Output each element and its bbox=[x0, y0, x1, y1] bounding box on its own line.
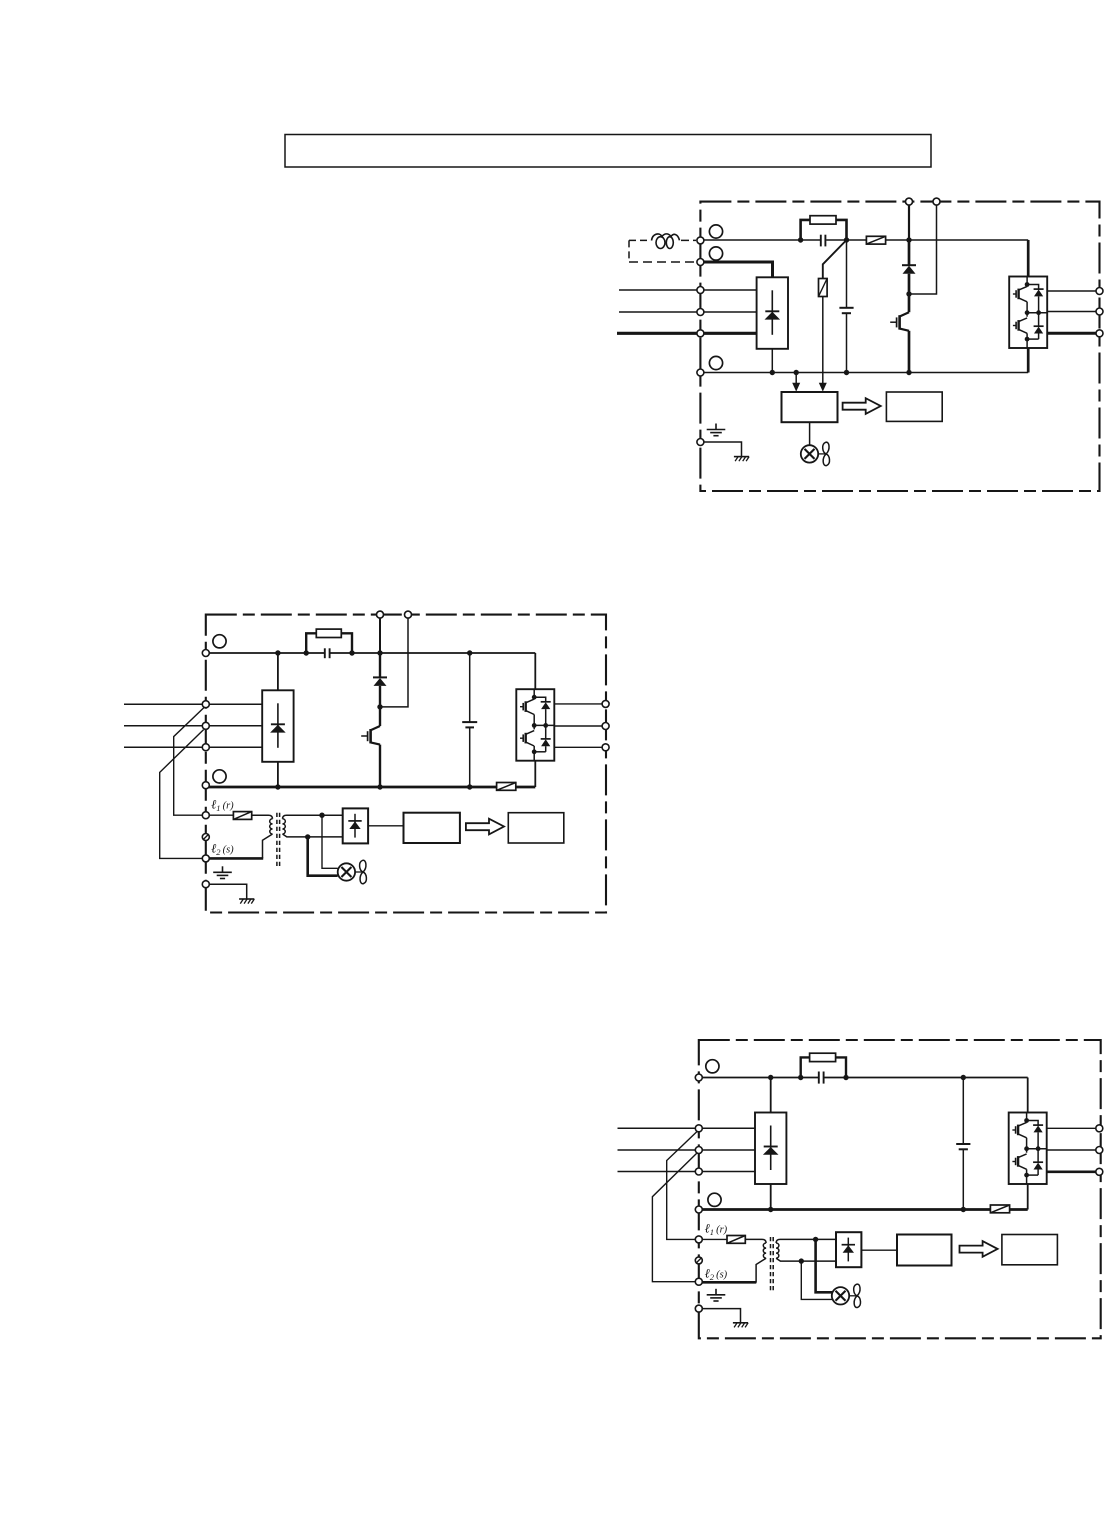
wire: inverter top lead (diagram 1) bbox=[1027, 240, 1030, 277]
wire: output V (diagram 3) bbox=[1047, 1149, 1097, 1151]
junction dots on N bus (diagram 3) bbox=[768, 1207, 773, 1212]
wire: output U (diagram 2) bbox=[554, 703, 602, 705]
DC bus capacitor (diagram 3) bbox=[956, 1078, 970, 1210]
wire: inverter bottom lead (diagram 3) bbox=[1027, 1184, 1029, 1210]
aux fuse (diagram 2) bbox=[233, 812, 251, 820]
wire: N bus bottom (diagram 2, heavy) bbox=[206, 786, 536, 789]
terminal S input (diagram 1) bbox=[697, 309, 704, 316]
cooling fan (diagram 3) bbox=[832, 1284, 861, 1307]
control PCB box (diagram 3) bbox=[897, 1235, 952, 1266]
terminal V output (diagram 3) bbox=[1096, 1147, 1103, 1154]
DC reactor option (dashed coil circuit) bbox=[629, 234, 696, 262]
screw hole circle top (diagram 2) bbox=[213, 635, 226, 648]
chassis earth (hatched) diagram 3 bbox=[733, 1323, 748, 1328]
keypad box (diagram 3) bbox=[1002, 1235, 1058, 1265]
charging resistor (diagram 3) body bbox=[810, 1053, 836, 1061]
keypad box (diagram 1) bbox=[886, 392, 942, 421]
wire: l2 terminal to transformer primary (heavy, diagram 3) bbox=[697, 1281, 756, 1284]
terminal S input (diagram 3) bbox=[695, 1147, 702, 1154]
wire: inverter top lead (diagram 3) bbox=[1027, 1078, 1029, 1113]
wire: aux DC output to control PCB (diagram 3) bbox=[861, 1249, 897, 1251]
braking diode (diagram 1) bbox=[902, 240, 916, 294]
junction: chopper mid node (diagram 2) bbox=[377, 704, 382, 709]
wire: input line S (diagram 3) bbox=[618, 1149, 756, 1151]
wire: detector lead down to control PCB with arrowhead bbox=[822, 297, 824, 384]
wire: output U (diagram 3) bbox=[1047, 1127, 1097, 1129]
terminal DB top border right (diagram 2) bbox=[405, 611, 412, 618]
keypad box (diagram 2) bbox=[508, 813, 564, 843]
wire: output V (diagram 2) bbox=[554, 725, 602, 727]
screw hole circle bottom (diagram 2) bbox=[213, 770, 226, 783]
wire: rectifier bottom lead bbox=[771, 349, 773, 373]
voltage detector branch: diagonal lead from P bus bbox=[823, 240, 847, 279]
terminal P bus (diagram 2) bbox=[202, 650, 209, 657]
junction dot: secondary top node (diagram 3) bbox=[813, 1237, 818, 1242]
svg-text:ℓ2 (s): ℓ2 (s) bbox=[211, 841, 234, 857]
wire: input line S (diagram 2) bbox=[124, 725, 262, 727]
wire: chopper mid node to top border terminal DB (diagram 2) bbox=[380, 618, 408, 707]
wire: output W (diagram 1, heavy) bbox=[1047, 332, 1096, 335]
terminal W output (diagram 2) bbox=[602, 744, 609, 751]
terminal W output (diagram 1) bbox=[1096, 330, 1103, 337]
rectifier block (diagram 2) bbox=[277, 653, 279, 690]
inverter block (diagram 1) bbox=[1009, 277, 1047, 349]
block arrow to keypad box (diagram 3) bbox=[960, 1241, 998, 1257]
wire: output V (diagram 1) bbox=[1047, 311, 1096, 313]
wire: output U (diagram 1) bbox=[1047, 290, 1096, 292]
wire: inverter top lead (diagram 2) bbox=[534, 653, 536, 689]
braking IGBT (diagram 2) bbox=[379, 707, 381, 726]
terminal T input (diagram 2) bbox=[202, 744, 209, 751]
terminal S input (diagram 2) bbox=[202, 722, 209, 729]
wire: inverter bottom lead (diagram 2) bbox=[534, 761, 536, 788]
wire: l1 terminal to aux fuse (diagram 3) bbox=[699, 1238, 727, 1240]
block arrow to keypad box (diagram 1) bbox=[843, 398, 881, 414]
screw hole circle top B (diagram 1) bbox=[709, 247, 722, 260]
braking IGBT (diagram 1) bbox=[908, 294, 911, 312]
chassis earth (hatched) diagram 1 bbox=[734, 457, 749, 462]
cooling fan (diagram 2) bbox=[338, 860, 367, 883]
wire: fan feed heavy (diagram 2) bbox=[308, 837, 338, 876]
aux rectifier diode box (diagram 2) bbox=[343, 808, 368, 843]
terminal W output (diagram 3) bbox=[1096, 1168, 1103, 1175]
control transformer (diagram 2) bbox=[252, 813, 343, 868]
terminal DB top border right (diagram 1) bbox=[933, 198, 940, 205]
wire: input line R (diagram 3) bbox=[618, 1127, 756, 1129]
terminal P bus (diagram 3) bbox=[695, 1074, 702, 1081]
terminal P1 (diagram 1) bbox=[697, 237, 704, 244]
terminal G ground (diagram 2) bbox=[202, 881, 209, 888]
terminal R input (diagram 1) bbox=[697, 287, 704, 294]
slashed terminal (diagram 2) bbox=[202, 834, 209, 841]
junction dots on P bus (diagram 1) bbox=[798, 237, 803, 242]
junction dot: secondary bottom node (diagram 2) bbox=[305, 834, 310, 839]
aux rectifier diode box (diagram 3) bbox=[836, 1232, 861, 1267]
wire: N bus bottom (diagram 1) bbox=[700, 372, 1028, 374]
series capacitor in P bus (diagram 1) bbox=[821, 235, 826, 247]
aux fuse (diagram 3) bbox=[727, 1236, 745, 1244]
terminal G ground (diagram 3) bbox=[695, 1305, 702, 1312]
terminal U output (diagram 3) bbox=[1096, 1125, 1103, 1132]
slashed terminal (diagram 3) bbox=[695, 1257, 702, 1264]
block arrow to keypad box (diagram 2) bbox=[466, 819, 504, 835]
terminal l2 (diagram 3) bbox=[695, 1278, 702, 1285]
svg-text:ℓ2 (s): ℓ2 (s) bbox=[705, 1267, 728, 1283]
wire: P bus top (diagram 3) bbox=[699, 1077, 1028, 1079]
wire: DC bus sense tap with arrowhead bbox=[795, 373, 797, 384]
DC bus capacitor (diagram 2) bbox=[462, 653, 477, 787]
fuse in N bus (diagram 3) bbox=[990, 1205, 1009, 1213]
terminal U output (diagram 2) bbox=[602, 700, 609, 707]
title box (empty heading rectangle) bbox=[285, 135, 931, 168]
diagram 1 enclosure border (dashed) bbox=[700, 202, 1099, 491]
wire: ground terminal to chassis earth bbox=[700, 442, 741, 457]
wire: top border terminal P/DB down to P bus (diagram 2) bbox=[379, 618, 381, 653]
earth symbol above ground terminal (diagram 2) bbox=[213, 866, 232, 878]
diagram 3 enclosure border (dashed) bbox=[699, 1040, 1101, 1338]
wire: input line R (diagram 2) bbox=[124, 703, 262, 705]
wire: top border terminal P/DB down to P bus (diagram 1) bbox=[908, 205, 910, 240]
svg-text:ℓ1 (r): ℓ1 (r) bbox=[705, 1222, 728, 1238]
terminal V output (diagram 2) bbox=[602, 723, 609, 730]
series capacitor in P bus (diagram 3) bbox=[819, 1072, 824, 1084]
wire: input line T (diagram 1, heavy) bbox=[617, 332, 757, 335]
junction dots on P bus (diagram 2) bbox=[275, 650, 280, 655]
wire: inverter bottom lead (diagram 1) bbox=[1027, 348, 1030, 373]
terminal l1 (diagram 2) bbox=[202, 812, 209, 819]
wire: input line R (diagram 1) bbox=[619, 289, 757, 291]
earth symbol above ground terminal (diagram 3) bbox=[707, 1289, 726, 1301]
rectifier block (diagram 1) bbox=[757, 277, 788, 349]
voltage detector fuse (vertical) bbox=[819, 279, 828, 297]
charging resistor (diagram 1) leads bbox=[801, 220, 847, 240]
wire: input line T (diagram 2) bbox=[124, 746, 262, 748]
wire: P bus top (diagram 2) bbox=[206, 652, 536, 654]
terminal U output (diagram 1) bbox=[1096, 288, 1103, 295]
diagram 2 enclosure border (dashed) bbox=[206, 615, 606, 913]
terminal l1 (diagram 3) bbox=[695, 1236, 702, 1243]
series capacitor in P bus (diagram 2) bbox=[325, 648, 330, 658]
svg-text:ℓ1 (r): ℓ1 (r) bbox=[211, 798, 234, 814]
wire: l2 terminal to transformer primary (heavy) bbox=[204, 857, 263, 860]
terminal T input (diagram 3) bbox=[695, 1168, 702, 1175]
inverter block (diagram 2) bbox=[516, 689, 554, 761]
wire: fan feed heavy (diagram 3) bbox=[816, 1239, 833, 1292]
wire: aux tap from R phase to l1 terminal (diagram 3) bbox=[667, 1131, 698, 1239]
junction dot: secondary top node (diagram 2) bbox=[319, 813, 324, 818]
terminal R input (diagram 2) bbox=[202, 701, 209, 708]
terminal R input (diagram 3) bbox=[695, 1125, 702, 1132]
wire: N bus bottom (diagram 3, heavy) bbox=[699, 1208, 1028, 1211]
junction dots on N bus (diagram 1) bbox=[770, 370, 775, 375]
braking diode (diagram 2) bbox=[373, 653, 387, 707]
terminal V output (diagram 1) bbox=[1096, 308, 1103, 315]
terminal l2 (diagram 2) bbox=[202, 855, 209, 862]
terminal N bus (diagram 2) bbox=[202, 782, 209, 789]
control transformer (diagram 3) bbox=[745, 1237, 836, 1292]
charging resistor (diagram 3) leads bbox=[801, 1057, 846, 1077]
inverter block (diagram 3) bbox=[1009, 1113, 1047, 1185]
wire: fan supply from control PCB bbox=[809, 422, 811, 445]
charging resistor (diagram 2) body bbox=[316, 629, 341, 637]
control PCB box (diagram 2) bbox=[404, 813, 460, 843]
wire: output W (diagram 2) bbox=[554, 746, 602, 748]
charging resistor (diagram 2) leads bbox=[306, 633, 352, 653]
terminal P(+) (diagram 1) bbox=[697, 259, 704, 266]
chassis earth (hatched) diagram 2 bbox=[239, 899, 254, 904]
wire: fan feed thin (diagram 2) bbox=[322, 815, 338, 868]
junction dot: secondary bottom node (diagram 3) bbox=[799, 1258, 804, 1263]
wire: ground terminal to chassis earth (diagram 3) bbox=[699, 1309, 741, 1323]
screw hole circle top (diagram 3) bbox=[706, 1060, 719, 1073]
terminal P/DB top border left (diagram 2) bbox=[377, 611, 384, 618]
terminal G ground (diagram 1) bbox=[697, 439, 704, 446]
wire: aux DC output to control PCB (diagram 2) bbox=[368, 825, 403, 827]
screw hole circle top A (diagram 1) bbox=[709, 225, 722, 238]
wire: output W (diagram 3, heavy) bbox=[1047, 1170, 1097, 1173]
wire: P(+) heavy jumper from terminal to rectifier top bbox=[700, 262, 772, 277]
wire: input line S (diagram 1) bbox=[619, 311, 757, 313]
screw hole circle bottom (diagram 1) bbox=[709, 356, 722, 369]
wire: ground terminal to chassis earth (diagram 2) bbox=[206, 884, 247, 899]
terminal N bus (diagram 3) bbox=[695, 1206, 702, 1213]
wire: fan feed thin (diagram 3) bbox=[801, 1261, 832, 1299]
junction dots on N bus (diagram 2) bbox=[275, 784, 280, 789]
fuse in P bus (diagram 1) bbox=[866, 236, 885, 244]
rectifier block (diagram 3) bbox=[770, 1078, 772, 1113]
wire: chopper mid node to top border terminal DB bbox=[909, 205, 937, 294]
control PCB box (diagram 1) bbox=[782, 392, 838, 422]
wire: aux tap from R phase to l1 terminal bbox=[174, 707, 205, 815]
DC bus capacitor (diagram 1) bbox=[839, 240, 853, 373]
wire: input line T (diagram 3) bbox=[618, 1171, 756, 1173]
terminal N(-) (diagram 1) bbox=[697, 369, 704, 376]
terminal P/DB top border left (diagram 1) bbox=[906, 198, 913, 205]
junction: chopper mid node bbox=[906, 291, 911, 296]
screw hole circle bottom (diagram 3) bbox=[708, 1193, 721, 1206]
charging resistor (diagram 1) body bbox=[810, 216, 836, 224]
cooling fan (diagram 1) bbox=[801, 442, 830, 465]
terminal T input (diagram 1) bbox=[697, 330, 704, 337]
wire: P bus top (diagram 1) bbox=[700, 239, 1028, 241]
wire: aux tap from S phase to l2 terminal (diagram 3) bbox=[652, 1153, 696, 1281]
fuse in N bus (diagram 2) bbox=[497, 783, 516, 791]
wire: aux tap from S phase to l2 terminal bbox=[160, 730, 204, 859]
junction dots on P bus (diagram 3) bbox=[768, 1075, 773, 1080]
earth symbol above ground terminal (diagram 1) bbox=[707, 424, 726, 436]
wire: l1 terminal to aux fuse bbox=[206, 814, 234, 816]
